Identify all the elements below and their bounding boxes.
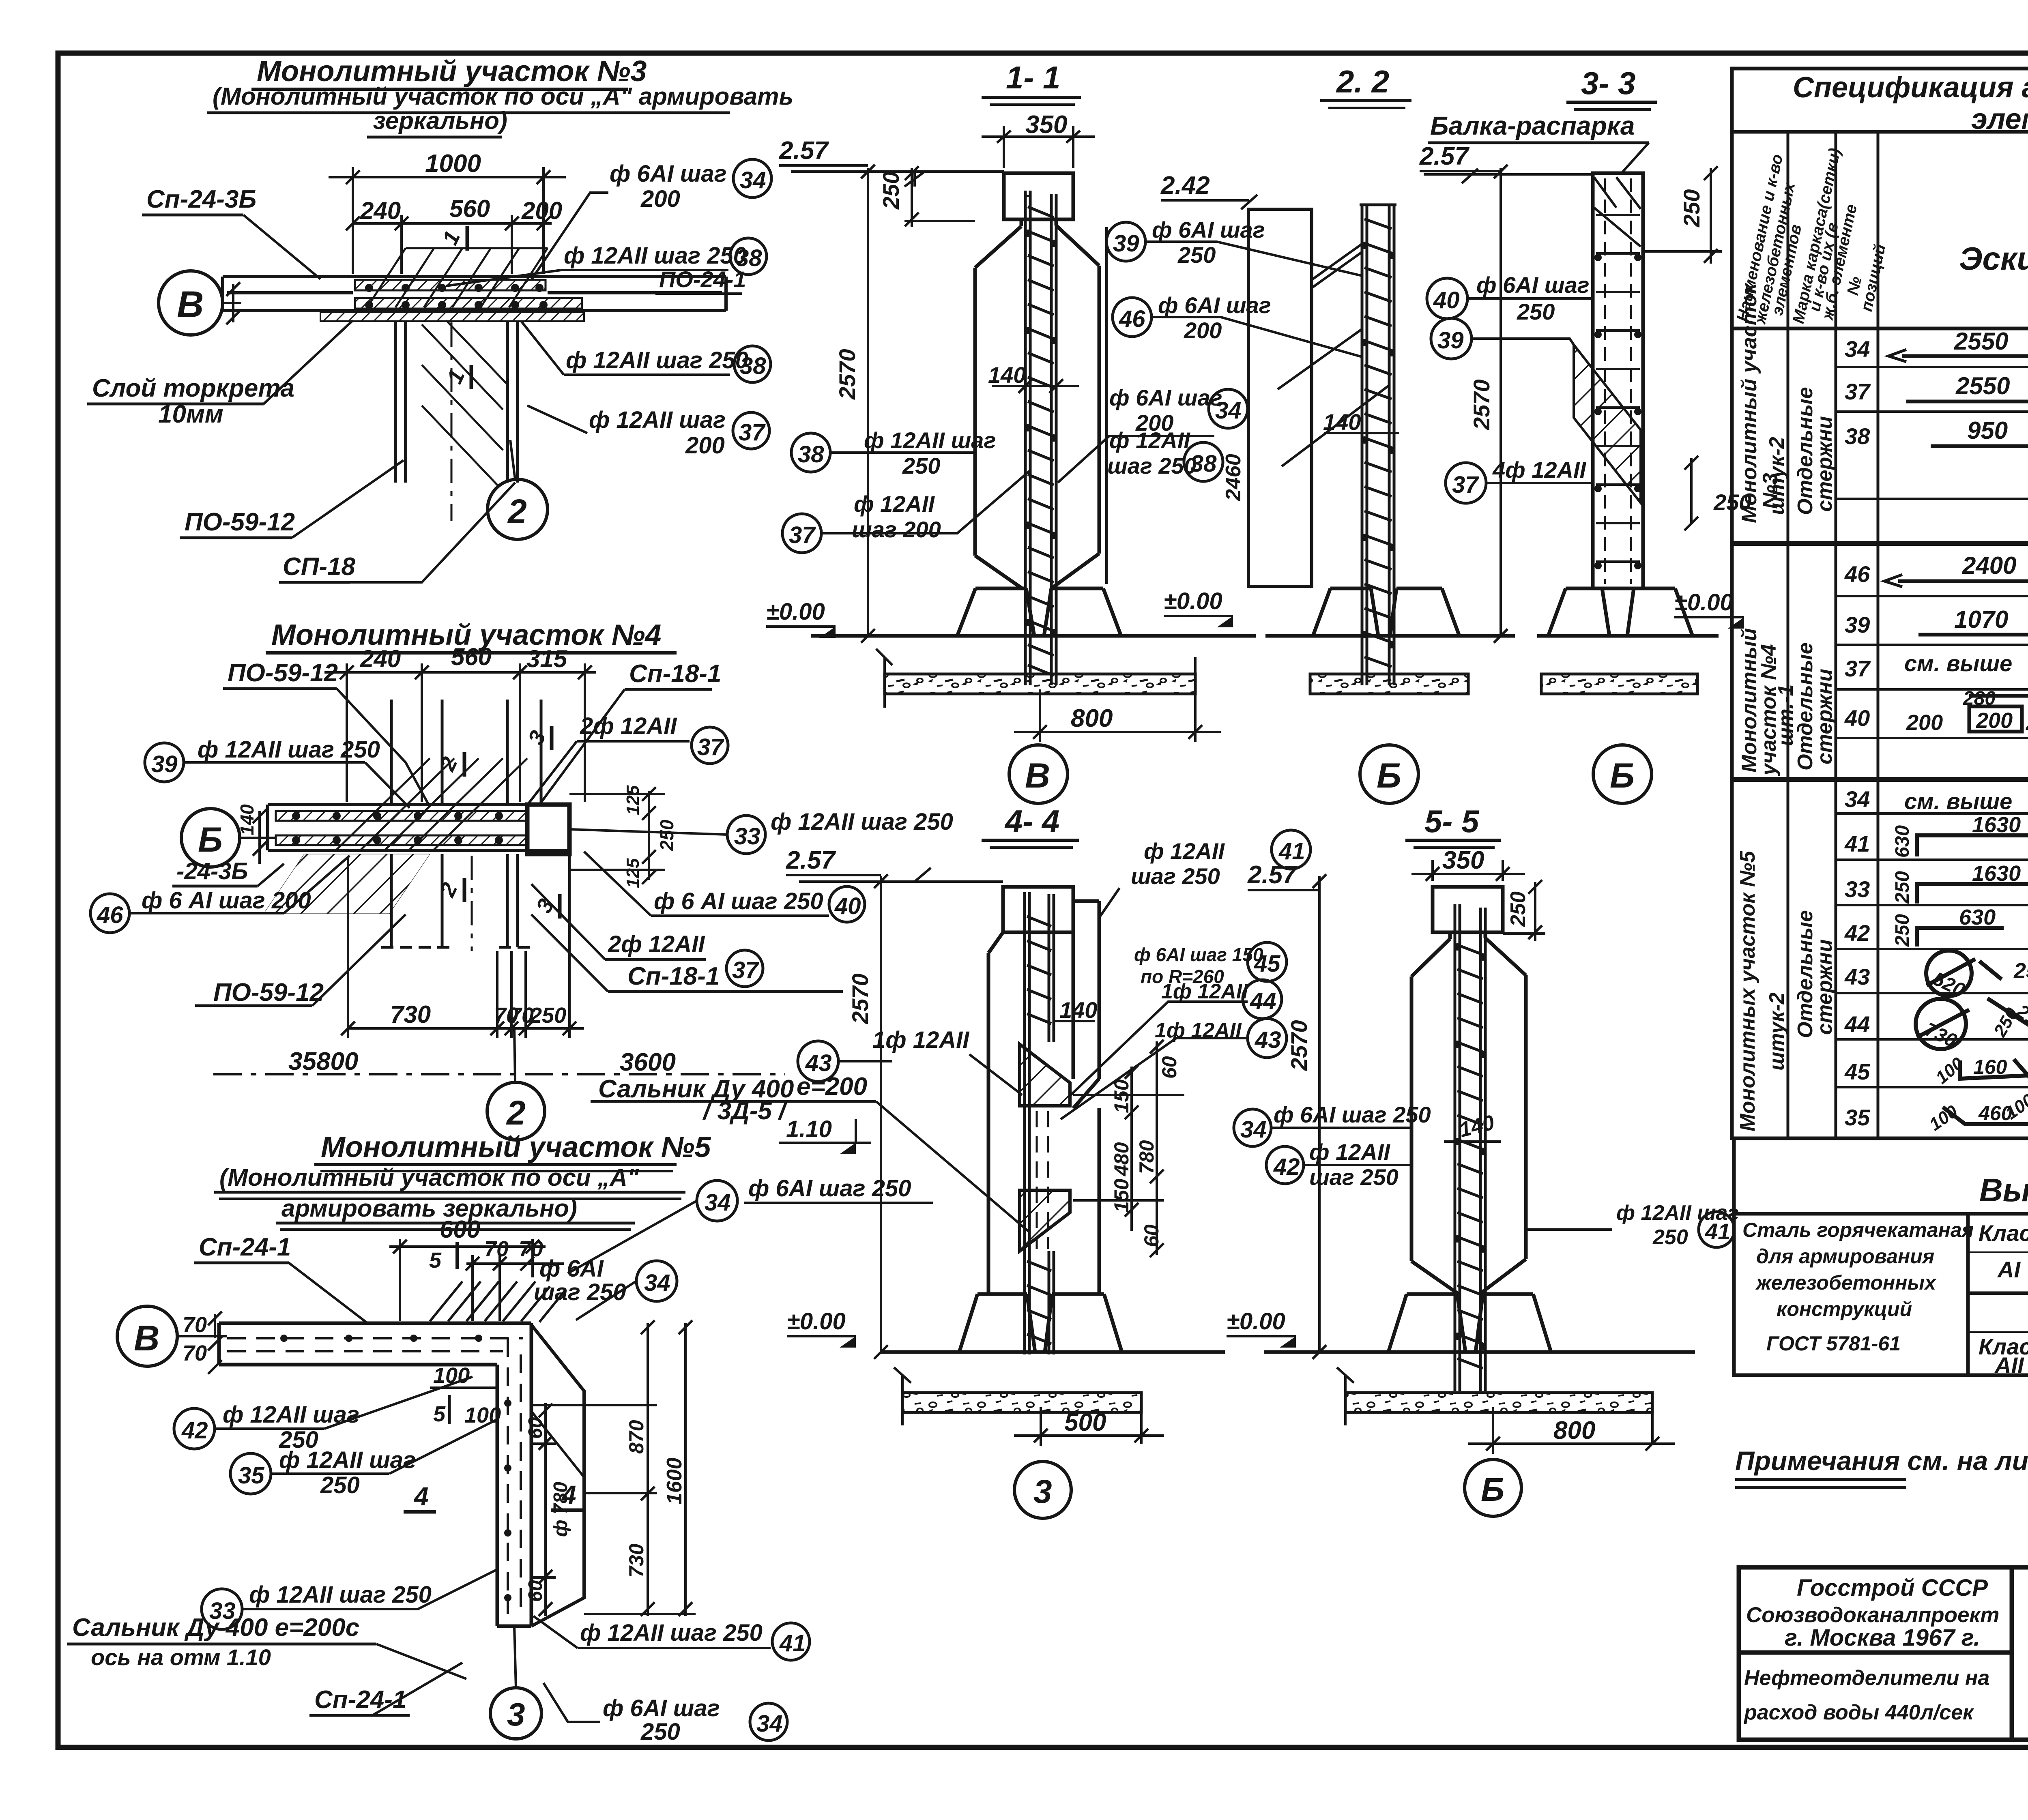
svg-text:2.57: 2.57 — [779, 137, 829, 165]
svg-text:см. выше: см. выше — [1904, 788, 2012, 814]
circle 40 / 39 — [1427, 278, 1467, 319]
svg-text:Сп-24-3Б: Сп-24-3Б — [146, 185, 256, 213]
svg-text:800: 800 — [1071, 704, 1113, 732]
svg-text:Сп-18-1: Сп-18-1 — [629, 660, 721, 688]
svg-text:ф 6АI шаг: ф 6АI шаг — [1152, 217, 1265, 243]
right dim cluster — [1073, 1040, 1184, 1257]
svg-text:шаг 250: шаг 250 — [1131, 863, 1220, 889]
svg-text:140: 140 — [1323, 409, 1361, 435]
svg-text:41: 41 — [1705, 1219, 1730, 1244]
svg-text:2.42: 2.42 — [1160, 172, 1210, 200]
svg-text:для армирования: для армирования — [1756, 1245, 1934, 1268]
leaders 2-2 — [1312, 243, 1363, 280]
foundation 1-1 — [811, 588, 1256, 636]
leader diagonals through slab — [367, 248, 548, 307]
svg-text:ф 6АI шаг: ф 6АI шаг — [1158, 292, 1271, 318]
svg-text:4: 4 — [413, 1482, 429, 1511]
svg-text:1ф 12АII: 1ф 12АII — [872, 1027, 970, 1053]
svg-text:Монолитный участок: Монолитный участок — [1738, 282, 1761, 523]
svg-text:1: 1 — [438, 227, 465, 249]
sketches group 1 — [1888, 350, 2028, 446]
svg-text:34: 34 — [1845, 336, 1870, 362]
125 250 125 dims — [569, 787, 665, 884]
circle 33 — [202, 1589, 242, 1629]
svg-text:34: 34 — [1845, 786, 1870, 812]
svg-text:315: 315 — [526, 645, 568, 672]
svg-text:37: 37 — [789, 522, 816, 548]
svg-text:39: 39 — [151, 751, 178, 777]
svg-text:250: 250 — [1652, 1225, 1688, 1249]
svg-text:ПО-24-1: ПО-24-1 — [659, 266, 746, 292]
circle 39 label (2-2) — [1106, 222, 1145, 261]
svg-text:ф 780: ф 780 — [550, 1482, 571, 1537]
svg-text:ф 12АII шаг 250: ф 12АII шаг 250 — [564, 243, 746, 269]
svg-text:2570: 2570 — [847, 973, 873, 1024]
svg-text:46: 46 — [1844, 561, 1870, 587]
svg-text:40: 40 — [834, 893, 861, 919]
svg-text:250: 250 — [656, 820, 677, 851]
svg-text:280: 280 — [1963, 688, 1996, 709]
svg-text:350: 350 — [1442, 846, 1484, 874]
svg-text:125: 125 — [623, 858, 643, 888]
svg-text:ф 6 АI шаг 250: ф 6 АI шаг 250 — [654, 888, 823, 914]
svg-text:ф 6АI: ф 6АI — [539, 1256, 604, 1282]
svg-text:45: 45 — [1844, 1059, 1870, 1084]
circle 34 top — [697, 1180, 737, 1221]
svg-text:Б: Б — [1481, 1471, 1504, 1508]
svg-text:Нефтеотделители на: Нефтеотделители на — [1744, 1666, 1989, 1690]
svg-text:35: 35 — [238, 1462, 264, 1489]
svg-text:250: 250 — [1892, 871, 1913, 904]
foundation 2-2 — [1265, 588, 1515, 636]
hatched zone below slab — [264, 854, 430, 914]
svg-text:ф 6 АI шаг 200: ф 6 АI шаг 200 — [142, 887, 311, 914]
svg-text:35800: 35800 — [288, 1047, 358, 1075]
svg-text:38: 38 — [740, 353, 766, 379]
svg-text:39: 39 — [1437, 327, 1464, 354]
svg-text:140: 140 — [1059, 997, 1097, 1023]
svg-text:стержни: стержни — [1813, 939, 1837, 1035]
slab — [268, 805, 569, 850]
foundation 5-5 — [1264, 1294, 1695, 1352]
svg-text:500: 500 — [1064, 1408, 1106, 1436]
svg-text:240: 240 — [360, 197, 401, 224]
svg-text:33: 33 — [1845, 876, 1870, 902]
svg-text:250: 250 — [1679, 189, 1704, 227]
svg-text:37: 37 — [1845, 656, 1871, 681]
svg-text:45: 45 — [1254, 951, 1280, 977]
svg-text:3- 3: 3- 3 — [1581, 65, 1635, 101]
svg-text:630: 630 — [1959, 905, 1996, 929]
svg-text:армировать зеркально): армировать зеркально) — [281, 1195, 577, 1222]
ladder 4-4 — [1025, 892, 1054, 1354]
circle 35 — [230, 1453, 271, 1494]
svg-text:43: 43 — [805, 1050, 832, 1076]
svg-text:ф 12АII шаг: ф 12АII шаг — [864, 427, 996, 453]
svg-text:2ф 12АII: 2ф 12АII — [608, 931, 705, 957]
circle V axis — [117, 1306, 177, 1366]
svg-text:5: 5 — [433, 1402, 446, 1426]
svg-text:34: 34 — [756, 1711, 783, 1737]
svg-text:46: 46 — [97, 902, 123, 928]
wing outline — [531, 1325, 584, 1626]
circle 37 left — [782, 514, 821, 553]
svg-text:39: 39 — [1113, 230, 1139, 257]
svg-text:стержни: стержни — [1813, 669, 1837, 764]
svg-text:34: 34 — [1240, 1116, 1267, 1143]
svg-text:шаг 250: шаг 250 — [1309, 1164, 1399, 1190]
svg-text:34: 34 — [705, 1189, 731, 1216]
svg-text:200: 200 — [640, 186, 680, 212]
svg-text:В: В — [1025, 756, 1050, 795]
cut marks 2 and 3 — [463, 752, 466, 777]
svg-text:33: 33 — [734, 823, 760, 850]
svg-text:ф 12АII: ф 12АII — [1109, 427, 1190, 453]
svg-text:37: 37 — [739, 419, 766, 446]
svg-text:60: 60 — [525, 1580, 546, 1602]
svg-text:250: 250 — [1506, 891, 1530, 927]
svg-text:250: 250 — [529, 1003, 566, 1028]
svg-text:520: 520 — [1929, 968, 1968, 1001]
svg-text:42: 42 — [181, 1417, 208, 1444]
svg-text:2.57: 2.57 — [786, 846, 836, 874]
svg-text:АI: АI — [1997, 1257, 2021, 1282]
svg-text:1630: 1630 — [1972, 861, 2021, 886]
svg-text:250: 250 — [1517, 299, 1555, 324]
svg-text:Спецификация арматуры на оди: Спецификация арматуры на один — [1793, 71, 2028, 104]
svg-text:стержни: стержни — [1813, 416, 1837, 512]
svg-text:расход воды 440л/сек: расход воды 440л/сек — [1743, 1701, 1974, 1724]
small totals table — [1734, 1214, 2028, 1375]
svg-text:1630: 1630 — [1972, 813, 2021, 837]
svg-text:ф 12АII шаг 250: ф 12АII шаг 250 — [249, 1582, 432, 1608]
svg-text:250: 250 — [320, 1472, 360, 1498]
svg-text:Выборка арматуры: Выборка арматуры — [1979, 1172, 2028, 1208]
svg-text:ПО-59-12: ПО-59-12 — [213, 979, 324, 1007]
svg-text:2550: 2550 — [1955, 372, 2010, 399]
svg-text:39: 39 — [1845, 612, 1870, 637]
svg-text:ф 12АII шаг: ф 12АII шаг — [589, 407, 726, 433]
svg-text:ось на отм 1.10: ось на отм 1.10 — [91, 1644, 271, 1670]
svg-text:конструкций: конструкций — [1777, 1298, 1912, 1320]
svg-text:41: 41 — [1844, 831, 1870, 856]
left labels 5-5 — [1234, 1109, 1271, 1146]
svg-text:ф 6АI шаг: ф 6АI шаг — [1109, 385, 1222, 410]
vyborka band — [1734, 1138, 2028, 1214]
svg-text:35: 35 — [1845, 1105, 1870, 1130]
svg-text:г. Москва 1967 г.: г. Москва 1967 г. — [1785, 1625, 1980, 1651]
header verticals — [1788, 132, 2028, 1138]
svg-text:350: 350 — [1025, 111, 1067, 139]
header rotated labels — [1734, 146, 1889, 326]
svg-text:Сальник Ду 400 е=200с: Сальник Ду 400 е=200с — [72, 1614, 359, 1642]
svg-text:730: 730 — [390, 1001, 431, 1028]
svg-text:зеркально): зеркально) — [373, 107, 507, 134]
svg-text:38: 38 — [798, 441, 824, 468]
svg-text:Б: Б — [1377, 756, 1401, 795]
hatched wedge — [1574, 345, 1641, 503]
cut mark 1 upper/lower — [466, 226, 469, 251]
svg-text:37: 37 — [1452, 472, 1479, 498]
walls below slab — [381, 854, 531, 947]
circle 3 — [490, 1688, 541, 1739]
beam outline — [1248, 209, 1312, 586]
svg-text:100: 100 — [1932, 1054, 1968, 1088]
svg-text:Сп-24-1: Сп-24-1 — [314, 1686, 406, 1714]
svg-text:В: В — [177, 284, 204, 325]
svg-text:200: 200 — [521, 197, 562, 224]
svg-text:34: 34 — [644, 1270, 670, 1296]
svg-text:ф 6АI шаг 150: ф 6АI шаг 150 — [1134, 944, 1263, 965]
svg-text:46: 46 — [1119, 306, 1145, 332]
svg-text:1070: 1070 — [1954, 606, 2008, 633]
svg-text:38: 38 — [1190, 451, 1217, 477]
svg-text:3: 3 — [523, 727, 550, 749]
column 3-3 — [1593, 173, 1643, 588]
svg-text:600: 600 — [440, 1216, 480, 1243]
svg-text:Класс: Класс — [1979, 1220, 2028, 1246]
thick rebar band in middle of slab — [355, 280, 546, 290]
cap & wall — [988, 887, 1099, 1294]
data rows group 2 — [1844, 559, 2028, 731]
circle B axis — [181, 809, 240, 867]
svg-text:250: 250 — [902, 453, 940, 479]
circle 46 label (2-2) — [1113, 298, 1151, 337]
svg-text:560: 560 — [451, 643, 492, 670]
svg-text:±0.00: ±0.00 — [787, 1308, 846, 1335]
svg-text:2: 2 — [506, 1094, 526, 1132]
ladder 5-5 — [1455, 904, 1485, 1391]
svg-text:4ф 12АII: 4ф 12АII — [1492, 457, 1587, 483]
group rotated labels — [1736, 282, 1837, 1131]
svg-text:200: 200 — [1184, 318, 1222, 343]
svg-text:250: 250 — [2013, 959, 2028, 983]
svg-text:60: 60 — [1140, 1224, 1163, 1247]
svg-text:Эскиз: Эскиз — [1959, 240, 2028, 277]
svg-text:ф 12АII шаг 250: ф 12АII шаг 250 — [566, 347, 748, 373]
cap — [975, 173, 1099, 588]
svg-text:2: 2 — [435, 879, 462, 901]
circle 42 — [174, 1408, 215, 1449]
svg-text:см. выше: см. выше — [1904, 650, 2012, 676]
svg-text:160: 160 — [1973, 1056, 2007, 1078]
svg-text:250: 250 — [878, 172, 904, 210]
svg-text:60: 60 — [525, 1417, 546, 1439]
svg-text:37: 37 — [732, 957, 759, 983]
svg-text:870: 870 — [625, 1420, 648, 1454]
svg-text:38: 38 — [1845, 423, 1870, 449]
svg-text:200: 200 — [685, 432, 725, 459]
svg-text:Балка-распарка: Балка-распарка — [1430, 111, 1635, 140]
svg-text:ф 12АII шаг: ф 12АII шаг — [279, 1447, 416, 1473]
rebar strip 2-2 — [1360, 205, 1396, 685]
svg-text:±0.00: ±0.00 — [1674, 589, 1733, 616]
svg-text:43: 43 — [1844, 964, 1870, 989]
svg-text:2ф 12АII: 2ф 12АII — [580, 713, 677, 739]
svg-text:2400: 2400 — [1962, 552, 2016, 579]
data rows group 1 — [1845, 334, 2028, 453]
title block — [1739, 1567, 2028, 1740]
column below slab — [395, 321, 518, 483]
svg-text:штук-2: штук-2 — [1765, 992, 1789, 1071]
svg-text:140: 140 — [236, 804, 258, 835]
svg-text:5: 5 — [429, 1248, 442, 1273]
svg-text:3600: 3600 — [620, 1048, 676, 1076]
row dividers — [1836, 367, 2028, 1087]
svg-text:2570: 2570 — [1469, 379, 1494, 430]
svg-text:2.57: 2.57 — [1247, 861, 1298, 889]
svg-text:-24-3Б: -24-3Б — [176, 858, 248, 884]
svg-text:Б: Б — [198, 820, 223, 859]
svg-text:280: 280 — [2026, 710, 2028, 735]
svg-text:ф 6АI шаг 250: ф 6АI шаг 250 — [748, 1175, 911, 1202]
svg-text:АII: АII — [1994, 1352, 2024, 1378]
svg-text:250: 250 — [640, 1719, 680, 1745]
svg-text:железобетонных: железобетонных — [1755, 1271, 1937, 1294]
svg-text:210: 210 — [2012, 1000, 2028, 1036]
svg-text:41: 41 — [779, 1630, 806, 1657]
svg-text:2550: 2550 — [1954, 328, 2008, 355]
svg-text:250: 250 — [1990, 1004, 2022, 1040]
svg-text:1- 1: 1- 1 — [1006, 60, 1060, 95]
diagonals through slab — [337, 758, 527, 850]
svg-text:200: 200 — [1906, 710, 1943, 735]
svg-text:37: 37 — [697, 734, 724, 760]
svg-text:ф 12АII шаг 250: ф 12АII шаг 250 — [198, 736, 380, 763]
gravel strip 1-1 — [885, 674, 1195, 694]
spec table frame — [1732, 69, 2028, 1138]
circle B under 1-1 — [1009, 745, 1068, 803]
svg-text:ф 12АII шаг 250: ф 12АII шаг 250 — [580, 1620, 763, 1646]
foundation 4-4 — [881, 1294, 1225, 1352]
labels left: circle 38 — [791, 433, 830, 472]
svg-text:42: 42 — [1844, 920, 1870, 946]
svg-text:37: 37 — [1845, 379, 1871, 404]
svg-text:шаг 200: шаг 200 — [852, 517, 941, 542]
rebar ladder — [1025, 191, 1056, 685]
circle V axis — [159, 271, 223, 335]
svg-text:1ф 12АII: 1ф 12АII — [1161, 980, 1248, 1003]
svg-text:элемент: элемент — [1971, 103, 2028, 135]
svg-text:150: 150 — [1110, 1079, 1133, 1113]
250 top right dim — [1643, 166, 1722, 264]
svg-text:140: 140 — [1457, 1111, 1497, 1142]
svg-text:ф 12АII шаг 250: ф 12АII шаг 250 — [771, 809, 953, 835]
svg-text:Сп-24-1: Сп-24-1 — [199, 1233, 291, 1261]
svg-text:(Монолитный участок по оси: (Монолитный участок по оси „А" — [219, 1164, 640, 1191]
svg-text:2460: 2460 — [1222, 454, 1245, 501]
hatch above slab corner — [430, 1281, 566, 1322]
hatched blocks — [1020, 1044, 1070, 1106]
svg-text:1600: 1600 — [663, 1457, 686, 1505]
svg-text:34: 34 — [740, 167, 766, 193]
svg-text:100: 100 — [2022, 1056, 2028, 1090]
cap & wall 5-5 — [1411, 887, 1526, 1294]
svg-text:3: 3 — [507, 1696, 525, 1732]
svg-text:100: 100 — [464, 1403, 501, 1427]
svg-text:44: 44 — [1844, 1011, 1870, 1037]
left labels 4-4 — [969, 1054, 1022, 1095]
svg-text:2570: 2570 — [1286, 1020, 1312, 1071]
svg-text:Слой торкрета: Слой торкрета — [92, 374, 294, 402]
svg-text:125: 125 — [623, 785, 643, 815]
svg-text:5- 5: 5- 5 — [1424, 803, 1480, 839]
svg-text:40: 40 — [1844, 705, 1870, 731]
slab — [223, 277, 726, 311]
svg-text:240: 240 — [360, 645, 401, 672]
svg-text:1.10: 1.10 — [786, 1116, 832, 1142]
svg-text:34: 34 — [1215, 397, 1242, 424]
svg-text:780: 780 — [1135, 1140, 1158, 1174]
svg-text:(Монолитный участок по оси: (Монолитный участок по оси „А" армироват… — [213, 83, 793, 110]
svg-text:Монолитных участок №5: Монолитных участок №5 — [1736, 850, 1759, 1131]
svg-text:200: 200 — [1976, 708, 2013, 733]
svg-text:1000: 1000 — [425, 150, 481, 178]
svg-text:ф 6АI шаг 250: ф 6АI шаг 250 — [1274, 1102, 1431, 1127]
circle 2 pointer — [488, 479, 548, 539]
data rows group 3 — [1844, 786, 2028, 1130]
torkret layer — [320, 312, 584, 321]
svg-text:шаг 250: шаг 250 — [534, 1279, 626, 1305]
svg-text:42: 42 — [1273, 1154, 1300, 1180]
inner rebar dashes — [227, 1338, 523, 1614]
sketches group 3 — [1916, 835, 2028, 1124]
svg-text:2.57: 2.57 — [1419, 142, 1469, 170]
svg-text:70: 70 — [183, 1341, 207, 1365]
svg-text:ф 12АII: ф 12АII — [1144, 838, 1225, 864]
svg-text:43: 43 — [1255, 1027, 1281, 1053]
svg-text:±0.00: ±0.00 — [1227, 1308, 1285, 1335]
walls above slab — [391, 700, 541, 805]
svg-text:800: 800 — [1553, 1417, 1595, 1444]
svg-text:позиций: позиций — [1858, 243, 1889, 313]
svg-text:ГОСТ 5781-61: ГОСТ 5781-61 — [1766, 1332, 1901, 1355]
svg-text:630: 630 — [1892, 825, 1913, 858]
svg-text:ф 12АII: ф 12АII — [854, 491, 935, 517]
svg-text:Примечания см. на листе АС-: Примечания см. на листе АС-15. — [1735, 1446, 2028, 1476]
svg-text:4- 4: 4- 4 — [1004, 803, 1059, 839]
circle 37 — [1446, 463, 1486, 503]
svg-text:±0.00: ±0.00 — [1164, 588, 1222, 614]
svg-text:60: 60 — [1158, 1056, 1181, 1079]
svg-text:250: 250 — [1892, 914, 1913, 947]
svg-text:ф 6АI шаг: ф 6АI шаг — [1476, 272, 1590, 298]
svg-text:Б: Б — [1610, 756, 1635, 795]
svg-text:150: 150 — [1110, 1178, 1133, 1213]
svg-text:1ф 12АII: 1ф 12АII — [1155, 1019, 1242, 1042]
foundation 3-3 — [1537, 588, 1719, 636]
svg-text:Сп-18-1: Сп-18-1 — [627, 962, 720, 990]
svg-text:ПО-59-12: ПО-59-12 — [185, 508, 295, 536]
svg-text:480: 480 — [1110, 1142, 1133, 1176]
800 dim — [1014, 689, 1221, 742]
svg-text:560: 560 — [449, 195, 490, 222]
svg-text:СП-18: СП-18 — [283, 553, 355, 581]
svg-text:Сталь горячекатаная: Сталь горячекатаная — [1742, 1219, 1974, 1241]
svg-text:70: 70 — [183, 1313, 207, 1337]
svg-text:2. 2: 2. 2 — [1336, 64, 1389, 99]
svg-text:140: 140 — [988, 362, 1026, 388]
svg-text:ф 6АI шаг: ф 6АI шаг — [610, 161, 727, 187]
svg-text:2: 2 — [507, 492, 527, 530]
svg-text:ПО-59-12: ПО-59-12 — [228, 659, 338, 687]
svg-text:Монолитный участок №5: Монолитный участок №5 — [321, 1131, 711, 1163]
circle 2 pointer — [487, 1082, 545, 1140]
svg-text:±0.00: ±0.00 — [766, 599, 825, 625]
svg-text:ф 12АII: ф 12АII — [1309, 1139, 1390, 1165]
right dim lines — [531, 1320, 696, 1616]
svg-text:штук-2: штук-2 — [1765, 437, 1789, 515]
